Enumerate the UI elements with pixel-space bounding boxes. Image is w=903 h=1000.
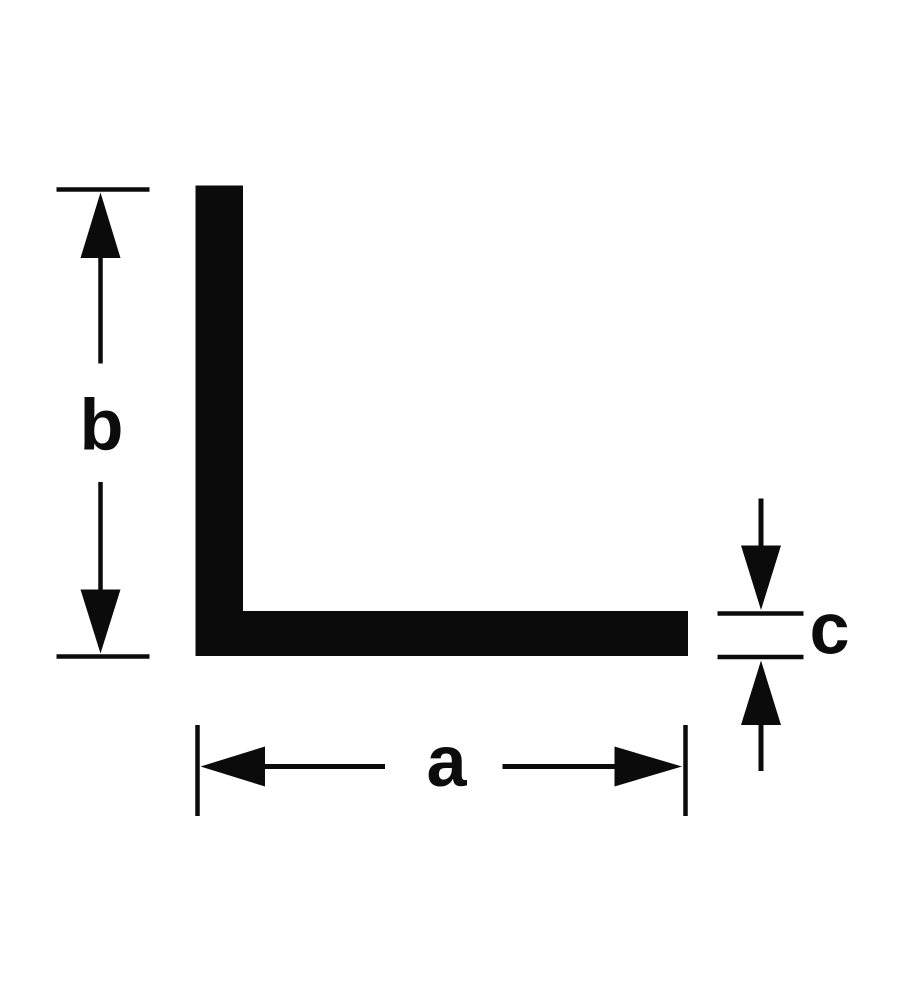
dimension b: bottom extension tick xyxy=(57,654,150,659)
dimension b: upper leader line xyxy=(98,256,103,364)
dimension a: left leader line xyxy=(263,764,385,769)
dimension a: right leader line xyxy=(503,764,617,769)
dimension a: left arrowhead xyxy=(201,747,266,787)
dimension b: down arrowhead xyxy=(81,590,121,654)
dimension a: right extension tick xyxy=(683,725,688,816)
dimension c: up arrowhead xyxy=(741,661,781,726)
dimension b: up arrowhead xyxy=(81,193,121,259)
dimension a: left extension tick xyxy=(195,725,200,816)
svg-text:a: a xyxy=(426,722,467,802)
dimension b: lower leader line xyxy=(98,482,103,592)
dimension b: top extension tick xyxy=(57,187,150,192)
dimension c: down arrowhead xyxy=(741,546,781,611)
dimension c: top extension tick xyxy=(718,611,804,616)
dimension c: upper leader line xyxy=(759,499,764,549)
dimension c: lower leader line xyxy=(759,723,764,771)
svg-text:b: b xyxy=(80,386,124,466)
L-profile body xyxy=(196,186,689,657)
svg-text:c: c xyxy=(809,590,849,670)
dimension c: bottom extension tick xyxy=(718,655,804,660)
dimension a: right arrowhead xyxy=(615,747,683,787)
